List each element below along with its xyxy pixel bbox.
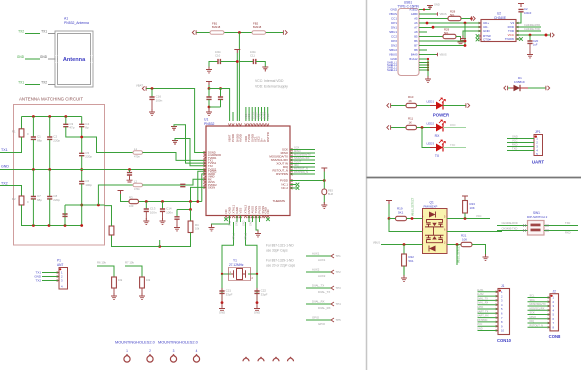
svg-text:DP1: DP1 [391,21,397,25]
wire [175,139,206,166]
svg-text:A1: A1 [64,17,68,21]
wire [221,288,223,291]
wire [176,219,178,226]
svg-text:470n: 470n [134,187,140,191]
svg-text:SHELL1: SHELL1 [387,68,398,72]
ground [206,67,212,73]
wire [65,204,105,206]
junction [432,26,435,29]
no-connect [476,38,480,42]
ground [483,254,489,260]
wire [464,213,466,219]
wire [232,112,234,121]
wire [65,117,67,125]
svg-text:DVAL_TX: DVAL_TX [312,283,324,287]
wire [32,170,34,197]
wire [0,186,22,197]
svg-text:TX2: TX2 [208,164,213,168]
wire [290,187,296,189]
wire [238,33,240,122]
wire [461,18,471,20]
svg-text:100n: 100n [150,210,157,214]
capacitor C18 [218,97,223,99]
wire [97,266,114,277]
svg-text:R7 10k: R7 10k [125,261,134,265]
wire [419,58,427,60]
op-amp U1 PN532 body [206,126,290,216]
resistor R4 [188,221,193,233]
ground [255,231,261,237]
svg-text:3: 3 [173,349,175,353]
no-connect [296,186,300,190]
wire [290,166,315,168]
wire [22,116,82,118]
svg-text:VBUS: VBUS [389,12,397,16]
wire [64,214,66,226]
wire [464,200,466,201]
svg-text:IRQ: IRQ [530,320,535,323]
wire [464,23,466,46]
wire [419,62,428,64]
svg-text:PN532: PN532 [204,122,214,126]
resistor [448,16,461,20]
svg-text:CC1: CC1 [391,17,397,21]
ground [139,293,145,299]
wire [21,117,23,129]
svg-text:TXD: TXD [450,143,455,147]
svg-text:GND: GND [229,220,232,226]
svg-text:A8: A8 [414,30,418,34]
wire [129,170,131,173]
svg-text:GND: GND [390,57,398,61]
svg-text:VBUS: VBUS [389,53,397,57]
svg-text:J2: J2 [553,289,557,293]
svg-text:VCC: VCC [476,214,482,218]
wire [419,45,465,47]
junction [464,22,467,25]
svg-text:CC2: CC2 [391,35,397,39]
svg-text:DN2: DN2 [391,44,397,48]
junction [464,40,467,43]
junction [80,136,83,139]
wire [32,117,34,138]
junction [221,273,223,275]
wire [256,303,258,307]
antenna matching box [14,105,105,246]
ground [254,306,260,311]
ground [149,109,155,115]
svg-text:5K1: 5K1 [409,259,415,263]
wire [323,172,325,190]
wire [478,291,499,293]
svg-text:VCC: VCC [477,323,482,326]
resistor R19 [396,216,407,220]
svg-text:UART: UART [532,160,545,165]
capacitor C10 [218,59,220,64]
wire [427,59,429,78]
junction [48,168,51,171]
ground [425,76,431,82]
svg-text:SDA: SDA [530,299,535,302]
wire [162,202,164,210]
ground [460,36,466,42]
junction [208,87,211,90]
svg-text:JP1: JP1 [535,130,541,134]
svg-text:DVAL_TX: DVAL_TX [318,290,330,294]
wire [202,174,206,202]
wire [516,26,541,28]
wire [381,244,423,246]
power flag [386,201,392,205]
svg-text:GND: GND [40,55,48,59]
wire [516,34,551,36]
svg-text:TP2: TP2 [336,270,342,274]
wire [419,49,425,51]
wire [419,22,481,24]
junction [151,87,154,90]
junction [161,200,164,203]
wire [419,69,428,71]
junction [427,61,429,63]
svg-text:68p: 68p [37,198,42,202]
svg-text:220p: 220p [85,155,92,159]
wire [139,201,202,203]
wire [456,37,461,41]
svg-text:TX2: TX2 [18,29,24,33]
power bar [171,127,177,132]
svg-text:R3: R3 [129,195,133,199]
wire [419,22,427,24]
no-connect [266,217,270,221]
svg-text:PN532_Antenna: PN532_Antenna [64,21,89,25]
wire [507,138,534,140]
wire [0,169,206,171]
wire [419,31,425,33]
svg-text:VBUS: VBUS [440,53,447,57]
svg-text:TX2: TX2 [41,80,47,84]
wire [66,127,105,153]
svg-text:R2: R2 [12,197,16,201]
wire [290,163,315,165]
svg-text:VCC: Internal VDD: VCC: Internal VDD [255,79,284,83]
svg-text:TP1: TP1 [336,254,342,258]
svg-text:B1A12: B1A12 [409,57,418,61]
svg-text:VSS: VSS [239,208,243,214]
svg-text:AUX2: AUX2 [477,293,484,296]
junction [323,179,326,182]
svg-text:ANT: ANT [57,263,63,267]
wire [25,84,40,86]
svg-text:MOSI/SDA/TX: MOSI/SDA/TX [294,153,311,157]
svg-text:GND: GND [236,220,239,226]
svg-text:RXD: RXD [450,123,456,127]
junction [32,224,35,227]
wire [256,288,258,291]
svg-text:use 33pF Caps: use 33pF Caps [266,249,288,253]
svg-text:TXD: TXD [512,146,517,150]
wire [160,233,191,247]
svg-text:1K: 1K [409,120,413,124]
wire [528,309,551,311]
resistor [112,277,117,288]
wire bottom rail [22,205,82,226]
capacitor C2 [47,137,52,139]
capacitor C16 [149,97,154,99]
wire [443,105,466,107]
wire [81,127,83,154]
svg-text:10k: 10k [195,227,200,231]
wire [48,84,55,86]
wire [113,288,115,295]
svg-text:TP4: TP4 [336,302,342,306]
svg-text:CH340E-RXD: CH340E-RXD [524,23,540,27]
IC top pins [228,123,230,126]
svg-text:TNOW: TNOW [505,37,514,41]
wire [81,184,83,226]
wire [261,107,263,121]
pin1 mark [535,135,537,137]
svg-text:DVAL_RX: DVAL_RX [318,306,331,310]
wire [81,156,83,182]
no-connect [224,217,228,221]
wire [248,216,250,223]
ground [458,39,464,45]
svg-text:TX1: TX1 [18,80,24,84]
svg-text:SBU1: SBU1 [389,30,397,34]
svg-text:LED2: LED2 [427,121,435,125]
wire [478,317,499,319]
wire [419,27,427,29]
svg-text:FB1: FB1 [212,22,218,26]
wire [306,255,331,257]
wire [246,222,258,274]
ferrite FB3 [322,189,327,195]
junction [48,224,51,227]
power flag [462,196,468,200]
IC left pins [203,151,206,153]
svg-text:VBUS_DETECT: VBUS_DETECT [411,197,414,216]
svg-text:FB3: FB3 [328,189,333,193]
mounting hole b4 [288,358,294,361]
junction [221,301,224,304]
wire [264,107,266,121]
capacitor [180,184,185,186]
svg-text:GND: GND [512,134,518,138]
wire [141,288,143,295]
svg-text:DP2: DP2 [391,39,397,43]
no-connect [476,34,480,38]
svg-text:A4B9: A4B9 [411,12,418,16]
wire [417,105,437,107]
wire [257,107,259,121]
wire [162,211,164,219]
wire [528,318,551,320]
wire [143,179,207,185]
wire [497,230,528,232]
wire [407,218,423,220]
ferrite FB1 [210,31,224,35]
wire [447,244,461,246]
ground [219,306,225,311]
svg-text:NSS/SCL/RX: NSS/SCL/RX [294,156,310,160]
svg-text:RSTOUT_N: RSTOUT_N [294,167,308,171]
IC bottom pins [225,216,227,219]
antenna notches [55,57,93,62]
junction [388,217,391,220]
svg-text:220p: 220p [53,198,60,202]
port [504,86,508,90]
wire [121,194,130,202]
pin1 mark [551,295,553,297]
port [550,33,554,37]
svg-text:SBU2: SBU2 [389,48,397,52]
power flag [118,191,124,195]
wire [419,18,427,20]
wire [419,36,427,38]
junction [411,217,414,220]
svg-text:5K1: 5K1 [444,31,449,35]
wire [528,301,551,303]
svg-text:A7: A7 [414,26,418,30]
ground [206,109,212,115]
wire [419,6,430,10]
wire [145,202,147,210]
power bar [172,141,178,146]
junction [32,115,35,118]
svg-text:RSTOUT_N: RSTOUT_N [530,324,544,327]
LED LED2 [430,127,449,129]
wire [221,303,223,307]
svg-text:CTS#: CTS# [483,38,491,42]
junction [64,115,67,118]
wire [245,107,247,121]
svg-text:10k: 10k [146,278,151,282]
capacitor C13 [144,209,149,211]
ground [127,177,133,182]
wire [419,54,427,56]
wire [49,170,51,197]
svg-text:2K: 2K [409,99,413,103]
svg-text:10K: 10K [470,206,475,210]
wire [64,205,66,214]
port [546,86,550,90]
power flag [321,168,327,172]
junction [529,34,532,37]
wire [419,18,448,20]
svg-text:LED3: LED3 [427,141,435,145]
svg-text:C11: C11 [250,54,255,58]
svg-text:GND: GND [434,3,440,7]
junction [80,204,83,207]
svg-text:R28: R28 [450,9,456,13]
svg-text:AUX2: AUX2 [318,274,326,278]
svg-text:Y1: Y1 [233,258,237,262]
junction [470,17,473,20]
wire [516,30,541,32]
svg-text:FB2: FB2 [253,22,259,26]
svg-text:GND: GND [1,165,9,169]
wire [248,273,257,275]
capacitor C14 [160,209,165,211]
wire [190,210,192,222]
wire [520,87,528,89]
capacitor C7 [31,197,36,199]
ground [527,52,533,58]
wire [209,89,230,122]
wire [208,85,210,89]
junction [421,126,424,129]
svg-text:RX: RX [435,134,440,138]
port [466,103,470,107]
wire [174,125,206,163]
svg-text:VCC: VCC [512,138,518,142]
svg-text:100n: 100n [215,50,221,54]
capacitor C20 [527,41,532,43]
IC pin NC.1 [290,183,293,185]
wire [236,216,238,223]
power symbol VDD [262,67,268,72]
wire [290,149,315,151]
wire [528,305,551,307]
junction [256,273,258,275]
antenna A1 outer [55,31,93,87]
svg-text:GND: GND [477,328,483,331]
wire [419,40,465,42]
resistor R3 [129,199,139,203]
capacitor C6 [79,181,84,183]
svg-text:TX2: TX2 [35,279,41,283]
svg-text:1uF: 1uF [533,43,538,47]
wire [389,218,396,220]
wire [256,274,258,303]
capacitor C21 [219,291,224,293]
wire [81,117,83,125]
wire [520,4,522,8]
svg-text:GND: GND [250,220,253,226]
wire [147,89,207,153]
svg-text:10: 10 [501,329,504,333]
wire [478,304,499,306]
svg-text:100p: 100p [85,183,92,187]
svg-text:MISO: MISO [294,149,301,153]
wire [48,58,55,60]
svg-text:GPIO: GPIO [477,306,483,309]
svg-text:1N5819: 1N5819 [514,80,525,84]
svg-text:100: 100 [129,204,134,208]
junction [189,208,192,211]
junction [48,115,51,118]
svg-text:SCK: SCK [294,146,300,150]
junction [456,243,459,246]
svg-text:GND: GND [390,8,398,12]
svg-text:SCL: SCL [530,295,535,298]
svg-text:100n: 100n [250,50,256,54]
wire [528,297,551,299]
svg-text:DVAL_TX: DVAL_TX [477,297,488,300]
wire [220,99,222,107]
svg-text:R4: R4 [195,223,199,227]
gnd flag [427,6,433,11]
svg-text:RSTPD: RSTPD [266,132,270,142]
wire [447,231,502,233]
wire [419,31,427,33]
capacitor C17 [206,97,211,99]
wire [198,171,206,201]
svg-text:GND: GND [219,311,225,315]
wire [306,287,331,289]
svg-text:B4A9: B4A9 [411,53,418,57]
wire [25,58,40,60]
